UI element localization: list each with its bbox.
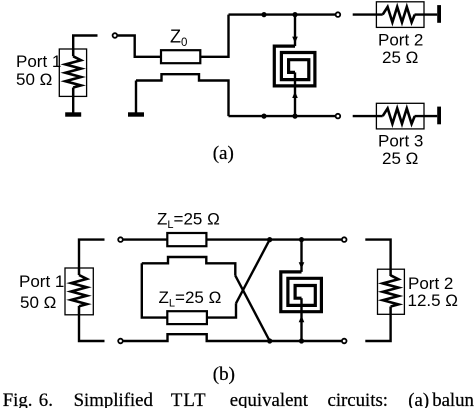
svg-text:Simplified: Simplified — [74, 390, 154, 408]
svg-text:Port 2: Port 2 — [408, 274, 453, 293]
svg-text:balun: balun — [432, 390, 474, 408]
svg-text:(b): (b) — [213, 364, 235, 385]
svg-text:Port 3: Port 3 — [378, 131, 423, 150]
svg-text:(a): (a) — [408, 390, 429, 408]
svg-text:equivalent: equivalent — [230, 390, 309, 408]
svg-text:50 Ω: 50 Ω — [16, 70, 52, 89]
svg-text:Fig.: Fig. — [3, 390, 33, 408]
svg-text:TLT: TLT — [171, 390, 207, 408]
svg-text:Port 2: Port 2 — [378, 31, 423, 50]
svg-text:50 Ω: 50 Ω — [20, 293, 56, 312]
svg-text:ZL=25 Ω: ZL=25 Ω — [159, 288, 222, 310]
svg-text:25 Ω: 25 Ω — [382, 48, 418, 67]
svg-text:Port 1: Port 1 — [19, 272, 64, 291]
svg-text:12.5 Ω: 12.5 Ω — [408, 291, 459, 310]
svg-text:6.: 6. — [39, 390, 53, 408]
svg-text:circuits:: circuits: — [328, 390, 389, 408]
svg-text:25 Ω: 25 Ω — [382, 149, 418, 168]
svg-text:Port 1: Port 1 — [16, 52, 61, 71]
svg-text:ZL=25 Ω: ZL=25 Ω — [157, 209, 220, 231]
svg-text:(a): (a) — [213, 143, 234, 164]
